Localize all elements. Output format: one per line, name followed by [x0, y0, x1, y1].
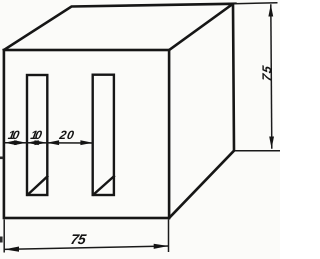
svg-text:20: 20	[57, 128, 75, 142]
svg-text:75: 75	[69, 231, 87, 247]
svg-text:10: 10	[29, 128, 43, 142]
svg-text:10: 10	[7, 128, 21, 142]
